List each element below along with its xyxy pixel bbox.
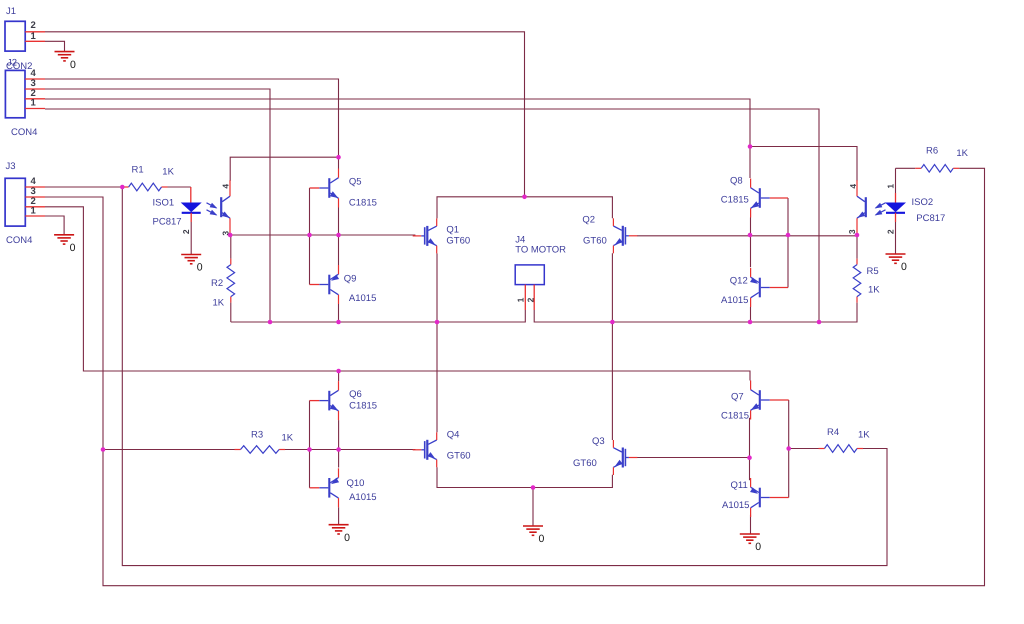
wire Q2 gate to ISO2 output [637, 236, 857, 259]
svg-text:R3: R3 [251, 429, 263, 440]
svg-text:GT60: GT60 [447, 450, 471, 461]
svg-text:PC817: PC817 [153, 216, 182, 227]
connector J4 (TO MOTOR) [515, 234, 566, 310]
wire J1 pin2 to bridge top rail [45, 32, 525, 197]
svg-text:2: 2 [181, 229, 191, 234]
svg-text:R6: R6 [926, 145, 938, 156]
svg-text:Q10: Q10 [347, 478, 365, 489]
svg-text:1: 1 [515, 297, 525, 302]
svg-text:0: 0 [70, 242, 76, 254]
IGBT Q1 GT60 [413, 218, 470, 253]
wire R3 tap from J3 pin3 line [103, 449, 235, 451]
wire J3 pin3 down, bottom rail to R6 right [45, 168, 985, 585]
svg-text:C1815: C1815 [349, 400, 377, 411]
wire R3 to Q4 gate [285, 449, 415, 451]
svg-text:Q9: Q9 [344, 273, 357, 284]
wire Q10 collector to ground [338, 507, 340, 524]
svg-text:1K: 1K [162, 167, 174, 178]
svg-text:A1015: A1015 [349, 293, 376, 304]
svg-text:0: 0 [901, 261, 907, 273]
svg-text:1K: 1K [213, 298, 225, 309]
transistor Q5 C1815 [310, 169, 377, 209]
svg-text:2: 2 [31, 20, 36, 31]
wire J1 pin1 to ground [45, 41, 65, 51]
resistor R6 1K [915, 145, 968, 172]
wire Q11 collector to ground [750, 515, 752, 534]
wire R2 top [230, 235, 232, 259]
wire Q12 collector to mid rail [750, 307, 752, 322]
svg-text:0: 0 [344, 532, 350, 544]
svg-text:C1815: C1815 [721, 410, 749, 421]
transistor Q6 C1815 [310, 381, 378, 420]
svg-text:2: 2 [886, 229, 896, 234]
svg-text:2: 2 [526, 297, 536, 302]
transistor Q11 A1015 [722, 478, 789, 517]
svg-text:1: 1 [31, 97, 37, 108]
wire R2 bottom to mid rail [230, 303, 232, 322]
ground 0 at J1 [55, 52, 77, 71]
svg-text:3: 3 [847, 229, 857, 234]
wire J3 pin1 to ground [45, 216, 64, 235]
wire J2 pin1 to mid rail [45, 109, 819, 322]
IGBT Q4 GT60 [413, 429, 471, 467]
svg-text:1K: 1K [956, 148, 968, 159]
wire J2 pin2 to Q8 collector [45, 99, 750, 178]
wire ISO1 pin4 to node A [230, 157, 338, 181]
svg-text:Q12: Q12 [730, 275, 748, 286]
svg-text:R5: R5 [867, 266, 879, 277]
svg-text:A1015: A1015 [349, 492, 376, 503]
svg-text:4: 4 [848, 184, 858, 189]
wire R6 left to ISO2 anode [896, 167, 916, 169]
wire ISO2 anode drop [895, 168, 897, 193]
wire J3 pin4 down to bottom rail and R4 return [122, 187, 887, 566]
svg-text:ISO2: ISO2 [912, 197, 934, 208]
svg-text:Q6: Q6 [349, 389, 362, 400]
wire J2 pin4 to node A [45, 79, 339, 169]
ground 0 at Q11 [740, 534, 762, 553]
wire J3 pin4 to R1 [45, 186, 123, 188]
wire Q1 emitter to Q4 collector [436, 253, 438, 432]
svg-text:C1815: C1815 [349, 197, 377, 208]
wire base rail Q6-Q10 [309, 401, 311, 488]
svg-text:J1: J1 [6, 6, 16, 17]
svg-text:J3: J3 [6, 161, 16, 172]
wire R1 to ISO1 anode [168, 186, 191, 188]
svg-text:1: 1 [886, 184, 896, 189]
resistor R1 [123, 164, 175, 190]
ground 0 at ISO1 [181, 255, 203, 274]
connector J2 (CON4) [5, 57, 45, 138]
ground 0 at J3 [54, 235, 76, 254]
opto-isolator ISO2 PC817 [847, 180, 946, 254]
svg-text:C1815: C1815 [721, 194, 749, 205]
svg-text:GT60: GT60 [573, 458, 597, 469]
svg-text:ISO1: ISO1 [153, 197, 175, 208]
wire base rail Q7-Q11 [788, 400, 790, 498]
wire Q1 collector to top rail to Q2 collector [437, 197, 612, 219]
wire Q3 gate to Q7-Q11 emitters [637, 457, 750, 459]
svg-text:A1015: A1015 [721, 295, 748, 306]
wire base rail Q8-Q12 [787, 198, 789, 288]
svg-text:CON2: CON2 [6, 61, 32, 72]
connector J3 (CON4) [5, 161, 45, 246]
transistor Q7 C1815 [721, 381, 789, 422]
wire ISO1 pin3 output to Q1 gate [230, 234, 415, 236]
opto-isolator ISO1 PC817 [153, 180, 231, 254]
transistor Q12 A1015 [721, 268, 788, 307]
svg-text:TO MOTOR: TO MOTOR [515, 244, 566, 255]
svg-text:1K: 1K [282, 432, 294, 443]
wire mid rail left segment [231, 310, 526, 322]
wire center ground tap [532, 488, 534, 527]
svg-text:R2: R2 [211, 278, 223, 289]
IGBT Q2 GT60 [582, 214, 637, 253]
transistor Q10 A1015 [310, 468, 377, 507]
svg-text:4: 4 [220, 184, 230, 189]
svg-text:Q8: Q8 [730, 175, 743, 186]
svg-text:PC817: PC817 [916, 213, 945, 224]
svg-text:0: 0 [755, 541, 761, 553]
svg-text:1: 1 [31, 31, 37, 42]
svg-text:0: 0 [197, 262, 203, 274]
wire Q4 emitter to Q3 emitter [437, 467, 612, 487]
transistor Q9 A1015 [310, 265, 377, 304]
svg-text:CON4: CON4 [11, 127, 37, 138]
resistor R2 1K [211, 259, 235, 309]
svg-text:Q1: Q1 [446, 224, 459, 235]
svg-text:0: 0 [70, 59, 76, 71]
ground 0 at Q10 [329, 525, 351, 544]
IGBT Q3 GT60 [573, 436, 637, 475]
svg-text:GT60: GT60 [446, 235, 470, 246]
wire emitter rail Q7-Q11 [749, 418, 751, 480]
svg-text:R4: R4 [827, 427, 839, 438]
svg-text:Q11: Q11 [731, 480, 748, 491]
wire Q8 collector link [750, 147, 857, 182]
wire mid rail right segment [534, 303, 857, 322]
svg-text:Q7: Q7 [731, 391, 744, 402]
wire Q6 collector to lower rail [338, 371, 340, 381]
connector J1 (CON2) [5, 6, 45, 51]
svg-text:Q4: Q4 [447, 429, 460, 440]
svg-text:Q2: Q2 [582, 214, 595, 225]
wire R4 from base rail [789, 448, 819, 450]
ground 0 at ISO2 [886, 254, 908, 273]
transistor Q8 C1815 [721, 175, 788, 217]
wire Q9 collector to mid rail [338, 304, 340, 322]
svg-text:1K: 1K [858, 429, 870, 440]
svg-text:Q5: Q5 [349, 176, 362, 187]
svg-text:CON4: CON4 [6, 235, 32, 246]
wire emitter rail Q6-Q10 [338, 420, 340, 467]
wire J3 pin2 to lower rail and Q7 collector [45, 207, 750, 381]
resistor R4 1K [819, 427, 871, 452]
resistor R5 1K [853, 259, 880, 303]
wire base rail Q5-Q9 [309, 188, 311, 285]
resistor R3 1K [235, 429, 294, 453]
wire emitter rail Q5-Q9 [338, 208, 340, 266]
svg-text:R1: R1 [132, 164, 144, 175]
svg-text:Q3: Q3 [592, 436, 605, 447]
svg-text:1: 1 [31, 205, 37, 216]
svg-text:GT60: GT60 [583, 235, 607, 246]
svg-text:0: 0 [539, 533, 545, 545]
svg-text:A1015: A1015 [722, 500, 749, 511]
wire Q2 emitter to Q3 collector [611, 253, 613, 440]
wire emitter rail Q8-Q12 [750, 218, 752, 268]
wire J2 pin3 to mid rail [45, 89, 270, 322]
svg-text:1K: 1K [868, 284, 880, 295]
ground 0 at bridge center [523, 526, 545, 545]
